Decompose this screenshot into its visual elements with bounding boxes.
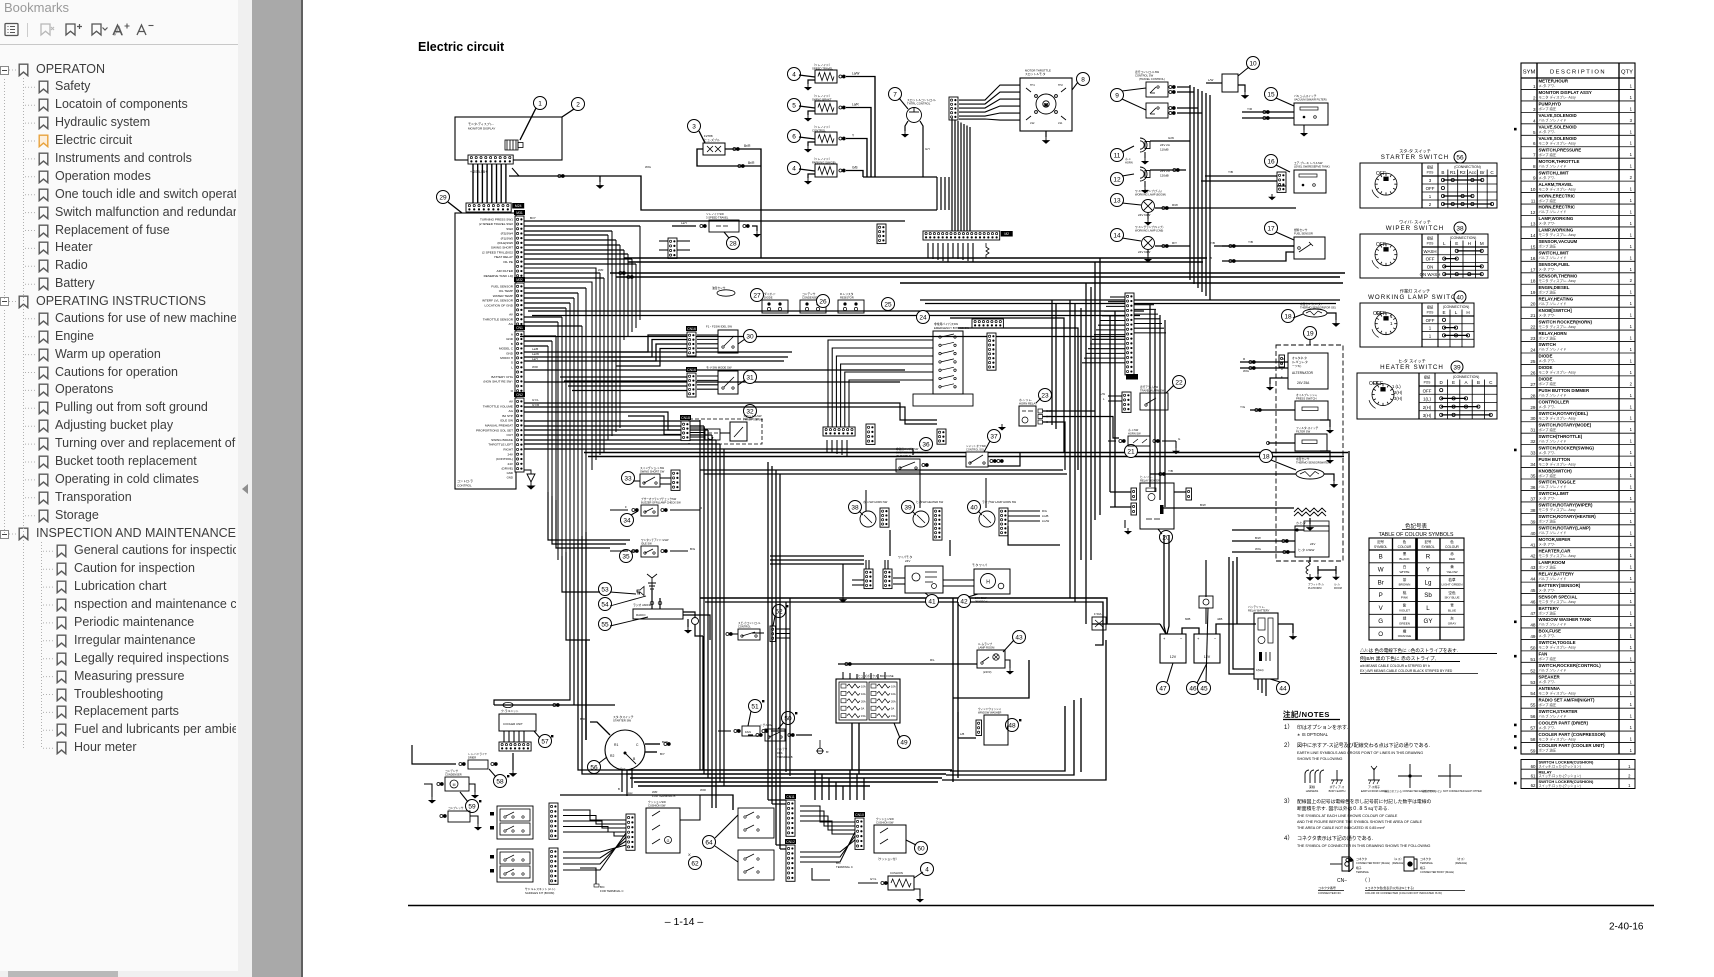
svg-text:SWITCH,PRESSURE: SWITCH,PRESSURE <box>1539 147 1582 152</box>
svg-text:RADIO SET AM/FM(NIGHT): RADIO SET AM/FM(NIGHT) <box>1539 697 1595 702</box>
wire monitor bus <box>509 176 937 210</box>
bookmark: One touch idle and switch operat <box>38 188 49 202</box>
svg-text:60B: 60B <box>1185 617 1190 621</box>
wire La/W to item30 <box>608 340 687 358</box>
wire <box>697 338 718 340</box>
wire <box>868 560 870 569</box>
svg-text:レシ-バドライヤ: レシ-バドライヤ <box>468 752 487 756</box>
svg-text:MONITOR DISPLAT ASSY: MONITOR DISPLAT ASSY <box>1539 90 1592 95</box>
right vertical extra2 <box>1055 304 1057 429</box>
item circle 21 <box>1125 445 1138 458</box>
bottom bus <box>638 785 870 787</box>
bookmark: Radio <box>38 259 49 273</box>
svg-text:60: 60 <box>917 845 925 852</box>
right vertical <box>1085 283 1087 624</box>
wire <box>893 583 905 585</box>
CN13 wire right <box>1134 313 1158 315</box>
wire <box>512 753 514 770</box>
connector <box>999 508 1008 536</box>
wire <box>800 830 855 862</box>
svg-text:CONTROLLER: CONTROLLER <box>1539 400 1570 405</box>
svg-text:KNOB[SWITCH]: KNOB[SWITCH] <box>1539 308 1573 313</box>
wire <box>765 210 767 277</box>
inline connector <box>743 225 749 228</box>
solenoid valve 6 <box>815 132 837 145</box>
svg-text:2(H): 2(H) <box>1423 405 1432 410</box>
svg-text:燃料センサ: 燃料センサ <box>1294 228 1308 232</box>
svg-text:10A: 10A <box>891 692 896 696</box>
wire <box>412 203 444 760</box>
svg-text:47: 47 <box>1159 685 1167 692</box>
leader item3 <box>699 131 705 143</box>
note symbols: harness <box>1305 770 1324 783</box>
svg-text:RED: RED <box>1449 557 1456 561</box>
svg-text:62: 62 <box>691 860 699 867</box>
item circle 14 <box>1111 229 1124 242</box>
svg-text:21: 21 <box>1127 448 1135 455</box>
svg-text:メ-タ.アワ-: メ-タ.アワ- <box>1539 679 1556 684</box>
svg-text:モニタ ディスプレ- Assy: モニタ ディスプレ- Assy <box>1539 370 1577 375</box>
wire <box>1177 91 1194 93</box>
svg-text:モニタ ディスプレ- Assy: モニタ ディスプレ- Assy <box>1539 232 1577 237</box>
CN13 wire right <box>1134 318 1160 320</box>
wire <box>870 673 872 679</box>
leader item17 <box>1276 232 1294 240</box>
svg-text:38: 38 <box>1456 225 1464 232</box>
svg-text:3: 3 <box>692 123 696 130</box>
svg-text:B/W: B/W <box>1255 536 1261 540</box>
svg-text:ON WASH: ON WASH <box>1420 272 1441 277</box>
svg-text:58: 58 <box>1530 737 1536 742</box>
wire R alternator <box>1240 361 1288 363</box>
bookmark: Bucket tooth replacement <box>38 455 49 469</box>
switch box item 31 <box>718 371 738 394</box>
svg-text:ランプSW LAMP HORN SW: ランプSW LAMP HORN SW <box>982 500 1017 504</box>
wire <box>1110 506 1131 508</box>
CN13 wire right <box>1134 332 1166 334</box>
horn item11 <box>1140 138 1150 152</box>
wire <box>1196 640 1206 682</box>
wire <box>524 239 616 241</box>
connector <box>877 224 886 244</box>
wire <box>645 743 660 745</box>
wire <box>660 477 671 479</box>
svg-text:21: 21 <box>1530 313 1536 318</box>
engine dashed box item 19 <box>1276 345 1343 561</box>
ground <box>1142 158 1148 164</box>
svg-text:ENGIN,DIESEL: ENGIN,DIESEL <box>1539 285 1570 290</box>
svg-text:モニタ ディスプレ- Assy: モニタ ディスプレ- Assy <box>1539 415 1577 420</box>
svg-text:W/R: W/R <box>532 365 539 369</box>
rotary switch item 39 <box>913 511 929 527</box>
svg-text:M: M <box>1044 102 1047 107</box>
sidebar title <box>4 0 69 15</box>
svg-text:クッションSW: クッションSW <box>648 800 666 804</box>
svg-text:SENSOR,FUEL: SENSOR,FUEL <box>1539 262 1571 267</box>
leader item45 <box>1206 608 1208 682</box>
svg-text:TERMINAL C: TERMINAL C <box>836 865 853 869</box>
item circle 59 <box>466 800 479 813</box>
connector <box>1131 488 1137 500</box>
inline connector <box>756 734 762 737</box>
svg-text:5A: 5A <box>861 707 864 711</box>
svg-text:PRESS SWITCH: PRESS SWITCH <box>1296 397 1317 401</box>
svg-text:SWITCH,LIMIT: SWITCH,LIMIT <box>1539 251 1569 256</box>
item circle 38 <box>849 501 862 514</box>
inline connector <box>1169 107 1175 110</box>
svg-text:22: 22 <box>1530 325 1536 330</box>
wire <box>1177 112 1202 114</box>
wire G relay <box>1043 422 1066 470</box>
svg-text:CN10: CN10 <box>855 813 864 817</box>
svg-text:SENSOR SPECIAL: SENSOR SPECIAL <box>1539 594 1578 599</box>
svg-text:1 (L): 1 (L) <box>1392 384 1401 389</box>
svg-text:ポンプ.油圧: ポンプ.油圧 <box>1539 106 1557 111</box>
item circle 27 <box>751 289 764 302</box>
svg-text:24V 60W: 24V 60W <box>1138 250 1151 254</box>
svg-text:SWITCH(THROTTLE): SWITCH(THROTTLE) <box>1539 434 1583 439</box>
wire La/Y to item30 <box>612 344 687 361</box>
wire <box>796 734 812 736</box>
leader <box>799 106 815 108</box>
footer rule <box>408 905 1654 907</box>
wire <box>524 345 548 347</box>
svg-text:LAMP,WORKING: LAMP,WORKING <box>1539 216 1574 221</box>
TB1 drop <box>937 243 939 260</box>
svg-text:ワ-キングランプ(キャブ): ワ-キングランプ(キャブ) <box>1135 225 1164 229</box>
wire <box>1245 560 1247 620</box>
wire <box>590 722 610 735</box>
svg-text:エア-ブレ-キ レベルSW: エア-ブレ-キ レベルSW <box>1294 161 1323 165</box>
wire <box>524 406 636 408</box>
wire <box>631 768 633 788</box>
svg-text:緑: 緑 <box>1403 616 1407 621</box>
svg-text:ポンプ.油圧: ポンプ.油圧 <box>1539 519 1557 524</box>
wire <box>683 615 710 640</box>
svg-text:シャットオフSW: シャットオフSW <box>966 444 986 448</box>
wire <box>842 672 844 679</box>
svg-text:SWITCH ROCKER(HORN): SWITCH ROCKER(HORN) <box>1539 319 1593 324</box>
svg-text:青: 青 <box>1450 603 1454 608</box>
wire <box>1005 660 1010 668</box>
wire <box>1108 400 1122 402</box>
wire 34B <box>1167 535 1169 634</box>
connector <box>514 210 525 279</box>
svg-text:61: 61 <box>1531 774 1536 779</box>
svg-text:KNOB(SWITCH): KNOB(SWITCH) <box>1539 468 1573 473</box>
wire <box>943 579 974 581</box>
item circle 3 <box>688 120 701 133</box>
bookmark: Troubleshooting <box>56 688 67 702</box>
inline connector <box>788 734 794 737</box>
inline connector <box>1346 859 1352 862</box>
svg-text:SWITCH: SWITCH <box>1539 342 1556 347</box>
wire <box>621 745 623 770</box>
svg-text:RELAY,HEATING: RELAY,HEATING <box>1539 296 1574 301</box>
svg-text:SWITCH,TOGGLE: SWITCH,TOGGLE <box>1539 480 1576 485</box>
svg-text:PUSH BUTTON: PUSH BUTTON <box>1539 457 1571 462</box>
wire <box>877 674 879 679</box>
svg-text:メ-タ.アワ-: メ-タ.アワ- <box>1539 83 1556 88</box>
svg-text:La/B: La/B <box>532 347 538 351</box>
svg-text:37: 37 <box>1530 496 1536 501</box>
connector <box>923 231 1013 240</box>
svg-text:R2: R2 <box>610 754 614 758</box>
leader item8 <box>1072 82 1078 90</box>
wire <box>944 177 946 186</box>
wire Y/R item15 <box>1242 111 1294 113</box>
wire <box>1324 474 1334 481</box>
svg-text:12V: 12V <box>1170 655 1177 659</box>
bookmark: Battery <box>38 277 49 291</box>
wire <box>695 625 703 636</box>
wire Y/G press <box>1250 409 1295 411</box>
svg-text:ソレノイドSW: ソレノイドSW <box>706 212 724 216</box>
item circle 44 <box>1277 682 1290 695</box>
wire Y/B long <box>1214 245 1294 247</box>
inline connector <box>1169 86 1175 89</box>
svg-text:CONTROL: CONTROL <box>457 484 472 488</box>
bookmark: Adjusting bucket play <box>38 419 49 433</box>
wire <box>1108 440 1116 442</box>
bypass wire <box>836 356 933 427</box>
svg-text:ポンプ.油圧: ポンプ.油圧 <box>1539 610 1557 615</box>
wire <box>1479 246 1481 252</box>
item circle 32 <box>744 405 757 418</box>
wire <box>1160 624 1166 634</box>
connector <box>933 508 942 540</box>
CN13 wire left <box>1094 334 1125 336</box>
svg-text:BATTERY(SENSOR): BATTERY(SENSOR) <box>1539 583 1581 588</box>
svg-text:ル-ム: ル-ム <box>1334 582 1340 586</box>
svg-text:7: 7 <box>893 91 897 98</box>
svg-text:48: 48 <box>1008 722 1016 729</box>
wire <box>524 429 708 431</box>
wire <box>709 640 711 770</box>
wire <box>1320 420 1330 427</box>
wire G/B <box>846 171 863 178</box>
svg-text:Y/R: Y/R <box>1247 107 1253 111</box>
wire <box>524 402 640 404</box>
wire 50B <box>1164 535 1166 634</box>
svg-text:43: 43 <box>1015 634 1023 641</box>
item circle 12 <box>1111 173 1124 186</box>
svg-text:L: L <box>1443 241 1446 246</box>
vertical to starter <box>585 640 587 740</box>
svg-text:R/G: R/G <box>1042 509 1047 513</box>
svg-text:W/R: W/R <box>598 268 603 272</box>
svg-text:E: E <box>1455 241 1458 246</box>
CN13 wire left <box>1090 343 1125 345</box>
svg-text:BUZZER OFF&LAMP CHECK SW: BUZZER OFF&LAMP CHECK SW <box>641 501 681 505</box>
inline connector <box>922 464 928 467</box>
connector <box>1122 392 1131 412</box>
connector <box>626 814 635 850</box>
wire to item31 c <box>568 385 687 387</box>
bottom bundle drop <box>821 774 823 800</box>
mid vertical <box>707 430 709 778</box>
wire <box>776 628 790 630</box>
svg-text:BLACK: BLACK <box>1399 557 1410 561</box>
svg-text:44B: 44B <box>1217 617 1222 621</box>
throttle bundle wire <box>969 127 971 232</box>
svg-text:接続: 接続 <box>1427 236 1434 241</box>
svg-text:B/G: B/G <box>690 547 696 551</box>
wire <box>772 803 786 805</box>
svg-text:GRAY: GRAY <box>1448 621 1457 625</box>
svg-text:36: 36 <box>922 441 930 448</box>
wire <box>1008 510 1040 512</box>
wire Y <box>846 139 867 178</box>
connector <box>854 812 865 849</box>
wire <box>940 177 942 184</box>
bookmark: Caution for inspection <box>56 562 67 576</box>
connector <box>549 848 558 884</box>
bookmark: Legally required inspections <box>56 652 67 666</box>
right vertical <box>1080 308 1082 560</box>
svg-text:HEARTER,CAR: HEARTER,CAR <box>1539 548 1572 553</box>
wire <box>1174 491 1186 493</box>
svg-text:FILTER SW: FILTER SW <box>1296 430 1311 434</box>
svg-text:モニタ ディスプレ- Assy: モニタ ディスプレ- Assy <box>1539 599 1577 604</box>
wire Y/B thermo <box>1150 473 1296 475</box>
svg-text:WINDOW WASHER: WINDOW WASHER <box>978 711 1002 715</box>
bookmark: Periodic maintenance <box>56 616 67 630</box>
svg-text:∗コネクタ色(色表示以外はWとする): ∗コネクタ色(色表示以外はWとする) <box>1365 885 1414 890</box>
svg-text:BATTERY CHG: BATTERY CHG <box>491 375 513 379</box>
wire <box>808 80 815 84</box>
wire <box>1108 395 1122 397</box>
wire <box>720 444 908 452</box>
svg-text:CN11: CN11 <box>786 795 795 799</box>
wire B/W glow <box>1160 507 1294 509</box>
TB1 drop <box>947 243 949 262</box>
wire <box>621 770 623 792</box>
inline connector <box>437 783 443 786</box>
wire <box>1277 185 1286 187</box>
inline connector <box>661 509 667 512</box>
right vertical <box>1069 300 1071 598</box>
svg-text:LIGHT GREEN: LIGHT GREEN <box>1442 583 1463 587</box>
svg-text:メ-タ.アワ-: メ-タ.アワ- <box>1539 404 1556 409</box>
svg-text:クッションSW: クッションSW <box>876 817 894 821</box>
leader item41 <box>925 593 929 596</box>
svg-text:コネクタ表示は下記の通りである.: コネクタ表示は下記の通りである. <box>1297 835 1373 842</box>
wire <box>1147 250 1149 256</box>
svg-text:WINDOW WASHER TANK: WINDOW WASHER TANK <box>1539 617 1593 622</box>
wire La/W <box>846 77 875 178</box>
wire <box>524 381 900 383</box>
cluster wire <box>563 827 626 833</box>
wire <box>865 490 867 511</box>
svg-text:FAN: FAN <box>745 730 751 734</box>
bookmark: Replacement of fuse <box>38 224 49 238</box>
wire <box>1222 312 1303 314</box>
wire <box>790 557 905 559</box>
sidebar toolbar <box>4 22 164 38</box>
wire <box>1097 645 1099 776</box>
svg-text:灰: 灰 <box>1450 616 1454 621</box>
switch item33 <box>640 474 660 487</box>
travel alarm box item 10 <box>1222 74 1238 92</box>
wire <box>1270 378 1288 384</box>
wire W/G alternator <box>1240 367 1288 369</box>
inline connector <box>845 663 851 666</box>
svg-text:メ-タ.アワ-: メ-タ.アワ- <box>1539 175 1556 180</box>
bypass wire <box>828 340 933 427</box>
svg-text:コンプレッサ: コンプレッサ <box>448 806 464 810</box>
wire <box>863 672 865 679</box>
wire <box>524 249 624 251</box>
wire <box>563 830 626 870</box>
ground <box>917 896 923 902</box>
svg-text:(24V3): (24V3) <box>983 670 991 674</box>
svg-text:モニタ ディスプレ- Assy: モニタ ディスプレ- Assy <box>1539 140 1577 145</box>
mid vertical c2 <box>771 466 773 804</box>
svg-text:R/W: R/W <box>1172 203 1178 207</box>
wire band3b to item32 <box>628 416 681 435</box>
svg-text:R.レジスタ: R.レジスタ <box>840 292 854 296</box>
wire <box>1317 570 1319 574</box>
cluster wire4 <box>800 836 855 857</box>
wire <box>524 225 640 227</box>
note symbols: not connected crossing <box>1438 764 1462 788</box>
ground <box>1145 219 1151 225</box>
svg-text:16: 16 <box>1267 158 1275 165</box>
ground <box>754 231 760 237</box>
svg-text:メ-タ.アワ-: メ-タ.アワ- <box>1539 221 1556 226</box>
wire <box>1147 213 1149 219</box>
cluster wire4 <box>800 840 855 852</box>
svg-text:33: 33 <box>624 475 632 482</box>
svg-text:2: 2 <box>1533 95 1536 100</box>
svg-text:TH1: TH1 <box>1030 84 1035 87</box>
inline connector <box>762 730 768 733</box>
leader item43 <box>1003 640 1014 652</box>
resistor below TB1 <box>986 243 989 258</box>
connector <box>937 429 946 444</box>
item circle 41 <box>926 595 939 608</box>
svg-text:OUT: OUT <box>506 433 513 437</box>
wire <box>1237 679 1256 681</box>
svg-text:24: 24 <box>919 314 927 321</box>
svg-text:CN16: CN16 <box>687 368 696 372</box>
svg-text:CN2: CN2 <box>516 393 523 397</box>
wire <box>563 834 626 858</box>
svg-text:スピ-カコントロ-ル: スピ-カコントロ-ル <box>738 621 761 625</box>
item circle 43 <box>1013 631 1026 644</box>
svg-text:ポンプ.油圧: ポンプ.油圧 <box>1539 152 1557 157</box>
wire <box>889 530 891 556</box>
svg-text:LG/W: LG/W <box>1042 519 1050 523</box>
svg-text:B/Y: B/Y <box>660 752 665 756</box>
svg-text:ホ-ン: ホ-ン <box>1125 157 1131 161</box>
connector <box>668 238 677 258</box>
svg-text:59: 59 <box>1530 749 1536 754</box>
svg-text:RESERVE TANK LIQ: RESERVE TANK LIQ <box>484 274 514 278</box>
svg-text:W/G: W/G <box>645 165 652 169</box>
svg-text:Y/B: Y/B <box>1228 170 1233 174</box>
svg-text:MOTOR,THROTTLE: MOTOR,THROTTLE <box>1539 159 1580 164</box>
wire R/L room lamp <box>838 663 977 665</box>
svg-text:59: 59 <box>468 803 476 810</box>
svg-text:EARTH FROM CABLE: EARTH FROM CABLE <box>1361 789 1388 793</box>
svg-text:57: 57 <box>1530 726 1536 731</box>
svg-text:空色: 空色 <box>1448 590 1456 595</box>
svg-text:28: 28 <box>1530 393 1536 398</box>
svg-text:7: 7 <box>1533 153 1536 158</box>
cluster wire3 <box>800 811 855 826</box>
